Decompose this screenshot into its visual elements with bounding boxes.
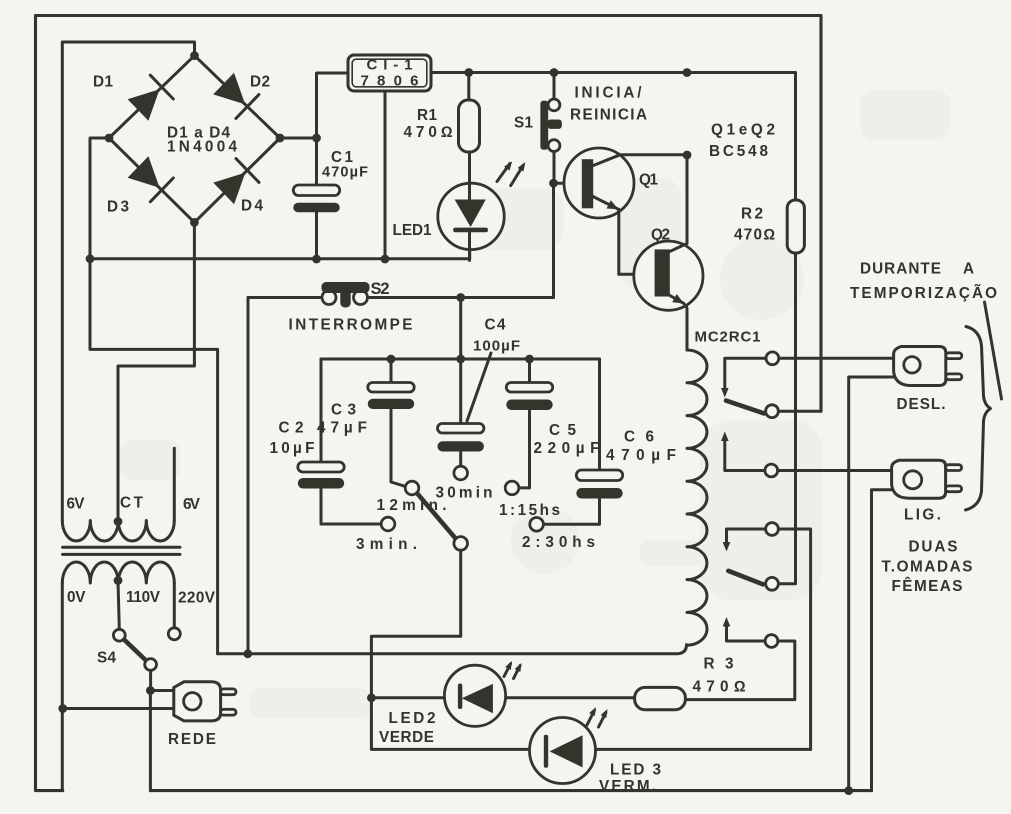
- node timing tap on S2 wire: [456, 293, 465, 302]
- switch S4: [113, 629, 156, 690]
- capacitor C6: [543, 359, 622, 524]
- wire LED2 line from node dot to R3: [371, 696, 634, 699]
- wire relay-coil bottom rail: [218, 645, 687, 654]
- LED1 light arrows: [497, 159, 528, 185]
- relay contact c2 (common upper set): [766, 405, 821, 418]
- transformer core: [63, 547, 181, 554]
- svg-text:C4: C4: [485, 317, 506, 334]
- node transformer CT: [114, 517, 123, 526]
- wire DESL plug lower side down to bottom rail: [849, 377, 894, 791]
- node ground rail left: [86, 254, 95, 263]
- brace bracket for the two sockets: [966, 327, 991, 511]
- svg-text:REDE: REDE: [168, 731, 216, 748]
- wire bridge diamond: [109, 56, 280, 223]
- LED2 light arrows: [504, 659, 524, 678]
- relay contact arm lower: [728, 571, 763, 585]
- node bridge top: [190, 51, 199, 60]
- node LED feed: [367, 693, 376, 702]
- wire 110V tap down to S4: [118, 582, 119, 630]
- node bridge bottom: [190, 218, 199, 227]
- LED1: [438, 152, 504, 260]
- transformer primary winding 0V-110V-220V: [62, 562, 174, 583]
- node C3 top: [387, 355, 396, 364]
- relay contact c1 (NC upper set): [721, 352, 894, 398]
- capacitor C3: [368, 359, 414, 486]
- svg-text:LED 3: LED 3: [610, 762, 661, 779]
- wire inner loop from bridge top node to left, down to transformer secondary: [62, 42, 194, 521]
- relay contact arm upper: [726, 401, 764, 414]
- svg-text:REINICIA: REINICIA: [570, 107, 647, 124]
- node C1 top: [312, 134, 321, 143]
- svg-text:D2: D2: [250, 74, 270, 91]
- terminal 220V open circle: [168, 628, 180, 640]
- svg-text:6V: 6V: [183, 496, 201, 513]
- wire timing node down from S2 wire to C4: [459, 298, 462, 424]
- IC CI-1 7806: [348, 55, 431, 91]
- diode D4: [213, 159, 259, 205]
- relay contact c5 (common lower set): [766, 577, 779, 590]
- wire LIG plug lower side down to bottom rail: [872, 490, 892, 791]
- svg-text:VERM.: VERM.: [599, 778, 656, 795]
- diode D2: [213, 73, 259, 119]
- rotary selector contact 30min: [454, 466, 468, 480]
- svg-text:R 3: R 3: [704, 656, 734, 673]
- svg-text:S4: S4: [97, 650, 116, 667]
- wire selector common down-left to LED node: [371, 550, 460, 698]
- svg-text:6V: 6V: [67, 496, 86, 513]
- wire CI-1 middle pin to ground rail: [384, 91, 387, 259]
- pointer line from TEMPORIZACAO text: [985, 302, 1002, 399]
- wire bottom mains rail: [150, 789, 871, 792]
- rotary selector wiper arm: [417, 493, 455, 538]
- svg-text:DURANTE: DURANTE: [860, 261, 941, 278]
- wire capacitor bank top rail: [321, 358, 600, 361]
- LED3 light arrows: [587, 705, 610, 727]
- resistor R1: [459, 73, 480, 153]
- transistor Q1: [554, 148, 687, 274]
- node CI-1 ground pin: [381, 255, 390, 264]
- svg-text:470Ω: 470Ω: [734, 227, 775, 244]
- capacitor C1: [293, 138, 339, 259]
- rotary selector contact 1:15hs: [505, 481, 519, 495]
- plug DESL: [894, 347, 962, 386]
- wire Q1 base junction to S2 wire: [552, 183, 555, 297]
- LED3: [530, 718, 596, 784]
- transistor Q2: [619, 155, 703, 350]
- rotary selector contact 12min: [405, 481, 419, 495]
- node bridge left: [105, 134, 114, 143]
- node C4 top: [456, 355, 465, 364]
- svg-text:0V: 0V: [67, 589, 86, 606]
- svg-text:DESL.: DESL.: [897, 396, 946, 413]
- svg-text:D1: D1: [93, 74, 113, 91]
- node Q1 base: [549, 179, 558, 188]
- relay contact c4 (NC lower set): [723, 523, 811, 750]
- svg-text:VERDE: VERDE: [379, 729, 434, 746]
- wire ground rail y=259: [90, 249, 470, 258]
- wire 0V to REDE plug lower side: [63, 707, 174, 710]
- capacitor C5: [506, 359, 552, 488]
- svg-text:110V: 110V: [126, 589, 161, 606]
- wire 0V terminal down to bottom rail: [61, 583, 64, 791]
- node R1 top: [464, 68, 473, 77]
- wire outer loop (relay contact c2 to top-left frame, down left side, bottom-left rail stub): [36, 16, 822, 791]
- svg-text:470Ω: 470Ω: [693, 679, 746, 696]
- svg-text:R1: R1: [417, 107, 437, 124]
- svg-text:D3: D3: [107, 199, 129, 216]
- svg-text:Q1: Q1: [639, 172, 658, 189]
- LED2: [444, 665, 505, 726]
- resistor R3: [635, 687, 686, 709]
- node bottom rail / DESL return: [844, 786, 853, 795]
- svg-text:INICIA/: INICIA/: [575, 85, 643, 102]
- transformer 6V right terminal (unused): [173, 448, 176, 520]
- wire S2 left corner down to coil bottom rail: [247, 298, 250, 654]
- diode D1: [128, 75, 174, 121]
- svg-text:220V: 220V: [178, 590, 216, 607]
- node C5 top: [525, 355, 534, 364]
- wire 6V rail from CI-1 output to R2 top: [431, 73, 796, 201]
- svg-text:MC2RC1: MC2RC1: [695, 329, 761, 346]
- wire REDE junction to plug and down to bottom rail: [150, 691, 173, 791]
- svg-text:470µF: 470µF: [322, 165, 368, 181]
- svg-text:S2: S2: [371, 280, 390, 298]
- capacitor C2: [298, 359, 381, 524]
- node transformer 110V tap: [114, 576, 123, 585]
- svg-text:R 2: R 2: [741, 206, 763, 223]
- wire 220V terminal to open circle: [173, 583, 176, 628]
- resistor R2: [787, 200, 804, 253]
- transformer secondary winding 6V-CT-6V: [62, 521, 174, 542]
- pushbutton S1 INICIA/REINICIA: [540, 73, 561, 184]
- plug LIG: [892, 460, 962, 498]
- node collector rail top: [683, 68, 692, 77]
- relay coil MC2RC1: [687, 350, 707, 645]
- wire bridge bottom node down to transformer CT: [118, 222, 194, 521]
- wire bridge minus continues down, right, down to relay-coil bottom rail: [90, 259, 218, 654]
- plug REDE: [174, 682, 236, 721]
- wire bridge minus node left and down to ground rail: [90, 138, 109, 259]
- node 0V junction: [58, 704, 67, 713]
- node C1 bottom: [312, 255, 321, 264]
- wire R2 bottom down to relay contact c5: [778, 253, 795, 584]
- node bridge right: [276, 134, 285, 143]
- rotary selector common contact: [454, 537, 468, 551]
- svg-text:Q2: Q2: [651, 227, 670, 244]
- svg-text:470Ω: 470Ω: [404, 124, 453, 141]
- node Q1 collector: [683, 151, 692, 160]
- svg-text:LED1: LED1: [393, 222, 432, 239]
- rotary selector contact 3min: [381, 517, 395, 531]
- faint print bleed-through artifacts: [120, 90, 950, 718]
- capacitor C4: [438, 424, 484, 467]
- relay contact c6 (NO lower set): [685, 617, 794, 700]
- relay contact c3 (NO upper set): [721, 432, 892, 477]
- wire bridge plus node to C1 top junction: [280, 137, 317, 140]
- svg-text:S1: S1: [514, 115, 533, 132]
- diode D3: [128, 156, 174, 202]
- node S1 top: [550, 68, 559, 77]
- node coil rail / S2 branch: [243, 649, 252, 658]
- svg-text:BC548: BC548: [709, 143, 768, 160]
- node REDE junction: [146, 686, 155, 695]
- wire C1 junction up-left into CI-1 input: [317, 73, 349, 138]
- rotary selector contact 2:30hs: [530, 518, 544, 532]
- label pointer line C4: [467, 353, 491, 421]
- svg-text:100µF: 100µF: [473, 338, 520, 355]
- svg-text:A: A: [963, 261, 974, 278]
- wire LED3 line from node dot to contact c4 drop: [371, 698, 810, 750]
- pushbutton S2 INTERROMPE: [248, 282, 554, 308]
